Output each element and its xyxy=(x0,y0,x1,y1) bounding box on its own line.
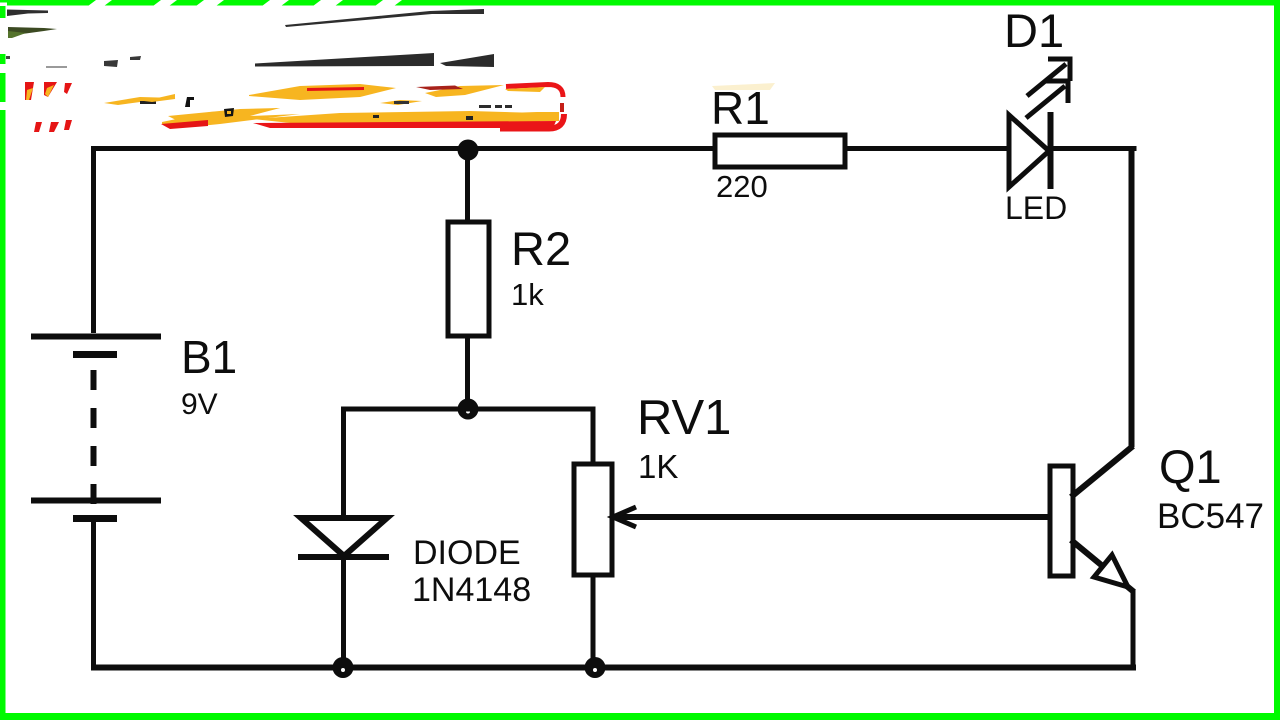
lower-left big yellow wedge xyxy=(162,108,300,127)
red top border remnant (dark) xyxy=(416,86,463,91)
wire: top rail left (battery to R1) xyxy=(94,149,718,334)
dark scribble remnants (erased title text) xyxy=(6,9,494,68)
wire: R2 down to junction B xyxy=(465,336,470,409)
LED D1 xyxy=(1009,59,1070,189)
svg-text:DIODE: DIODE xyxy=(413,534,521,572)
black glyph remnant (r) xyxy=(185,97,194,107)
diode D2 1N4148 xyxy=(298,518,389,667)
emitter arrowhead xyxy=(1094,555,1128,587)
red top border segment with right rounded corner xyxy=(506,85,563,98)
wire: emitter vertical xyxy=(1131,590,1136,667)
bottom right rounded corner red xyxy=(500,114,564,129)
potentiometer RV1 xyxy=(574,464,1050,667)
transistor Q1 xyxy=(1050,446,1134,592)
left tick cluster row 2 xyxy=(34,122,42,132)
svg-text:220: 220 xyxy=(716,169,768,204)
svg-text:9V: 9V xyxy=(181,388,218,421)
emitter diagonal xyxy=(1071,540,1134,592)
battery B1 xyxy=(31,337,161,519)
base bar xyxy=(1050,466,1073,576)
light arrow 2 xyxy=(1026,86,1065,118)
wiper arrowhead xyxy=(613,507,636,527)
thin yellow arc left xyxy=(104,97,176,105)
upper right yellow wedge xyxy=(425,85,504,97)
light arrow 1 xyxy=(1027,64,1066,96)
red right edge sliver xyxy=(560,103,564,112)
bottom yellow band + red bottom border xyxy=(253,111,540,124)
wire: junction down to R2 xyxy=(465,150,470,224)
yellow inside right corner xyxy=(480,112,559,122)
wiper wire to base xyxy=(618,514,1050,520)
white eraser cuts in top green border xyxy=(0,0,402,6)
svg-text:R2: R2 xyxy=(511,222,571,275)
svg-text:1k: 1k xyxy=(511,277,544,312)
node B: junction mid xyxy=(458,399,479,420)
white eraser cuts in left green border xyxy=(0,18,6,110)
erased yellow highlight box remnants (red border, yellow fill) xyxy=(25,82,775,132)
collector diagonal xyxy=(1071,446,1133,497)
wire: R1 to LED xyxy=(843,146,1010,151)
svg-text:LED: LED xyxy=(1005,190,1067,226)
svg-text:1K: 1K xyxy=(638,448,678,485)
svg-text:R1: R1 xyxy=(711,82,770,134)
svg-text:BC547: BC547 xyxy=(1157,497,1264,536)
faint cream remnant xyxy=(712,83,775,90)
node A: junction top (R2 tap) xyxy=(458,140,479,161)
left tick cluster row 1 xyxy=(25,82,34,100)
svg-text:Q1: Q1 xyxy=(1159,440,1222,493)
small yellow wedge xyxy=(144,94,175,102)
upper big yellow lens xyxy=(249,84,396,100)
wire: mid horizontal (diode branch to RV1 branch) xyxy=(344,409,594,518)
node D: junction bottom right (RV1) xyxy=(585,657,606,678)
black dash remnants xyxy=(479,105,491,108)
wire: battery bottom lead xyxy=(91,522,96,670)
node C: junction bottom left (diode) xyxy=(333,657,354,678)
red under lower-left wedge xyxy=(161,120,208,129)
svg-text:RV1: RV1 xyxy=(637,391,731,445)
resistor R2 xyxy=(448,222,489,336)
svg-text:1N4148: 1N4148 xyxy=(412,571,531,609)
small yellow dash right of lens xyxy=(380,100,422,105)
wire: bottom rail xyxy=(91,665,1136,671)
svg-text:D1: D1 xyxy=(1004,4,1064,57)
wire: LED to right rail, down to collector xyxy=(1050,149,1134,152)
svg-text:B1: B1 xyxy=(181,331,237,383)
black glyph remnant (g) xyxy=(224,108,234,117)
resistor R1 xyxy=(715,135,845,167)
